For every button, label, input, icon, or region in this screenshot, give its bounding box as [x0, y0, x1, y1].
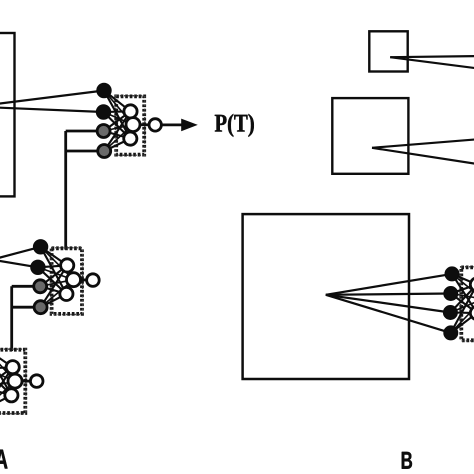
- network box N1 (stippled): [116, 96, 145, 155]
- label B: [402, 452, 412, 469]
- receptive-field rectangle RF1 (left, partially off-canvas): [0, 33, 15, 196]
- wire elbow N2 gray input G1 to vertical bus: [12, 285, 41, 288]
- output arrow shaft: [161, 124, 183, 127]
- N2 input node G1 (gray): [34, 280, 47, 293]
- N2 input node I1 (black): [33, 240, 47, 254]
- wire fan S1 upper: [390, 56, 474, 57]
- output arrow head: [181, 119, 198, 132]
- wire vertical bus N1-to-N2: [64, 131, 67, 250]
- wire N3 output to outer node: [15, 380, 37, 383]
- wire elbow N2 gray input G2 to vertical bus: [12, 306, 41, 309]
- N3 synapse wires inputs to output: [0, 348, 15, 408]
- NB hidden node H1 (partially off-canvas): [470, 278, 474, 291]
- wire elbow N1 gray input G1 to vertical bus: [66, 130, 104, 133]
- NB input node I3 (black): [443, 306, 457, 320]
- label A (partially off-canvas): [0, 450, 8, 469]
- NB input node I2 (black): [444, 287, 458, 301]
- N3 output node O1: [8, 374, 22, 388]
- N1 wires hidden to output: [130, 111, 133, 138]
- network box N2 (stippled): [51, 248, 83, 315]
- N1 input node I1 (black): [97, 83, 111, 97]
- wire fan S2 lower: [372, 148, 474, 164]
- N2 input node G2 (gray): [34, 301, 47, 314]
- N1 input node G2 (gray): [98, 145, 111, 158]
- wire vertical bus N2-to-N3: [10, 286, 13, 351]
- N3 hidden node H2: [5, 389, 18, 402]
- wire fan RF1 to N1 input I2: [0, 106, 104, 112]
- wire fan (off-canvas RF2) to N2 input I1: [0, 247, 41, 260]
- receptive-field square S3 (large, bottom right): [243, 214, 409, 379]
- N1 hidden node H2: [124, 132, 137, 145]
- N3 wires hidden to output: [11, 367, 15, 395]
- N1 output node O1: [126, 118, 140, 132]
- N2 synapse wires inputs to hidden: [38, 247, 67, 307]
- wire N1 output to outer node: [133, 123, 155, 126]
- wire fan RF1 to N1 input I1: [0, 91, 104, 109]
- NB input node I1 (black): [445, 267, 459, 281]
- N2 wires hidden to output: [66, 265, 73, 294]
- network box NB (stippled, partially off-canvas): [461, 267, 474, 341]
- wire fan S1 lower: [390, 57, 474, 68]
- N3 synapse wires inputs (off-canvas) to hidden: [0, 348, 13, 408]
- NB synapse wires inputs to hidden (hidden off-canvas): [450, 274, 474, 333]
- N3 hidden node H1: [6, 361, 19, 374]
- NB hidden node H2 (partially off-canvas): [470, 306, 474, 319]
- N1 input node I2 (black): [96, 105, 110, 119]
- label P(T): [215, 114, 254, 137]
- N2 input node I2 (black): [31, 260, 45, 274]
- N2 output node O1: [67, 273, 81, 287]
- N1 hidden node H1: [124, 105, 137, 118]
- N3 outer output node: [30, 375, 43, 388]
- wire N2 output to outer node: [74, 278, 93, 281]
- N1 synapse wires inputs to output: [104, 91, 134, 152]
- N2 hidden node H2: [60, 287, 73, 300]
- wire fan S3 to NB input 3: [326, 295, 451, 313]
- NB input node I4 (black): [444, 326, 458, 340]
- receptive-field square S2 (medium, middle right): [332, 98, 408, 174]
- network box N3 (stippled, partially off-canvas): [0, 349, 26, 414]
- receptive-field square S1 (small, top right): [369, 31, 407, 71]
- wire fan S3 to NB input 2: [326, 294, 451, 295]
- wire fan S3 to NB input 1: [326, 274, 452, 295]
- NB synapse wires inputs to output (off-canvas): [450, 274, 474, 333]
- wire fan S3 to NB input 4: [326, 295, 451, 333]
- N1 outer output node: [149, 119, 161, 131]
- N2 outer output node: [87, 274, 100, 287]
- N2 synapse wires inputs to output: [38, 247, 74, 307]
- N1 synapse wires inputs to hidden: [104, 91, 131, 152]
- N2 hidden node H1: [61, 259, 74, 272]
- wire fan S2 upper: [372, 139, 474, 147]
- N1 input node G1 (gray): [97, 125, 110, 138]
- wire elbow N1 gray input G2 to vertical bus: [66, 150, 105, 153]
- wire fan (off-canvas RF2) to N2 input I2: [0, 260, 38, 268]
